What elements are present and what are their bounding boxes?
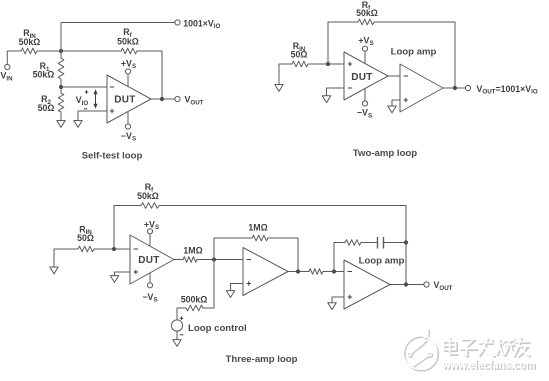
resistor Rf xyxy=(121,48,137,54)
wire R5 to node G and U6 minus input xyxy=(323,271,344,273)
wire +VS to U1 xyxy=(127,74,129,86)
svg-text:50Ω: 50Ω xyxy=(38,103,55,113)
power +VS terminal xyxy=(125,69,130,74)
svg-text:Two-amp loop: Two-amp loop xyxy=(353,148,417,159)
wire U2 minus input to ground xyxy=(327,88,345,96)
wire U3 output xyxy=(443,87,465,89)
wire node E up to R4 xyxy=(214,238,252,260)
terminal 1001xVIO xyxy=(175,20,180,25)
svg-text:1MΩ: 1MΩ xyxy=(183,246,202,256)
power -VS terminal xyxy=(147,283,152,288)
capacitor C1 xyxy=(378,237,384,249)
polarity minus of V1 xyxy=(180,334,184,336)
wire Rf to output node xyxy=(137,51,162,99)
svg-text:50Ω: 50Ω xyxy=(77,233,94,243)
pin minus of U1 xyxy=(110,86,114,88)
wire R2 to ground xyxy=(60,112,62,121)
op-amp U5 xyxy=(243,248,288,296)
wire R4 to node F xyxy=(268,238,298,272)
wire RIN to node C and DUT plus input xyxy=(308,63,344,65)
svg-text:50kΩ: 50kΩ xyxy=(117,37,139,47)
wire RIN to node A xyxy=(37,50,61,52)
wire V1 to ground xyxy=(176,331,178,340)
wire node E down to R7 xyxy=(203,260,214,309)
op-amp U2 DUT xyxy=(344,52,388,100)
node VOUT junction xyxy=(453,86,457,90)
power +VS terminal xyxy=(362,46,367,51)
wire -VS to U4 xyxy=(149,273,151,283)
power -VS terminal xyxy=(125,124,130,129)
ground at U6 plus input xyxy=(328,303,336,310)
source V1 loop control xyxy=(171,320,182,331)
wire R7 to source V1 xyxy=(177,308,186,320)
svg-text:Self-test loop: Self-test loop xyxy=(82,150,143,161)
svg-text:50kΩ: 50kΩ xyxy=(33,70,55,80)
pin minus of U4 xyxy=(134,248,138,250)
node VOUT junction xyxy=(404,282,408,286)
svg-text:500kΩ: 500kΩ xyxy=(181,294,208,304)
resistor R3 1M xyxy=(183,257,197,263)
node G junction xyxy=(332,269,336,273)
svg-text:50kΩ: 50kΩ xyxy=(137,191,159,201)
wire U2 output to loop amp xyxy=(388,75,400,77)
terminal VOUT xyxy=(465,85,470,90)
resistor R5 xyxy=(309,269,323,275)
wire node A to Rf xyxy=(61,50,121,52)
resistor R7 500k xyxy=(186,305,203,311)
polarity plus of VIO xyxy=(85,90,89,94)
op-amp U6 loop amp xyxy=(344,260,390,309)
wire U4 output to R3 xyxy=(174,259,183,261)
wire -VS to U1 xyxy=(127,112,129,124)
op-amp U3 loop amp xyxy=(400,64,443,112)
wire VIO to ground xyxy=(77,111,79,121)
source VIO arrow xyxy=(95,93,97,106)
terminal VIN xyxy=(5,64,10,69)
pin plus of U5 xyxy=(247,281,251,285)
wire +VS to U4 xyxy=(149,234,151,246)
polarity minus of VIO xyxy=(84,108,88,110)
wire node H down to output node xyxy=(405,243,407,285)
resistor Rf xyxy=(358,19,374,25)
ground at U2 minus input xyxy=(322,96,330,103)
pin plus of U3 xyxy=(404,98,408,102)
wire node D up to Rf xyxy=(114,206,141,250)
svg-text:Loop amp: Loop amp xyxy=(359,255,405,266)
wire U4 plus input to ground xyxy=(115,272,131,276)
wire node C up to Rf xyxy=(328,22,358,64)
pin plus of U4 xyxy=(134,270,138,274)
wire ground to RIN xyxy=(54,249,78,267)
svg-text:1MΩ: 1MΩ xyxy=(248,222,267,232)
wire node A down to R1 xyxy=(60,51,62,58)
ground at U3 plus input xyxy=(388,106,396,113)
svg-text:Loop amp: Loop amp xyxy=(391,46,437,57)
svg-text:DUT: DUT xyxy=(351,72,372,83)
power +VS terminal xyxy=(147,229,152,234)
resistor R4 1M xyxy=(252,235,268,241)
wire node G up to R6 xyxy=(334,243,345,272)
ground below R2 xyxy=(57,121,65,128)
wire U3 plus input to ground xyxy=(392,100,400,106)
wire C1 to node H xyxy=(384,242,407,244)
pin minus of U5 xyxy=(247,259,251,261)
resistor R6 xyxy=(345,240,361,246)
wire R3 to node E xyxy=(197,259,243,261)
wire R1 to node B xyxy=(60,79,62,93)
svg-text:DUT: DUT xyxy=(114,95,135,106)
ground at U5 plus input xyxy=(226,291,234,298)
resistor R2 xyxy=(58,93,64,112)
svg-text:50Ω: 50Ω xyxy=(291,50,308,60)
node C junction xyxy=(326,62,330,66)
svg-text:50kΩ: 50kΩ xyxy=(19,37,41,47)
polarity plus of V1 xyxy=(180,316,184,320)
ground at RIN input xyxy=(275,85,283,92)
resistor R1 xyxy=(58,58,64,79)
wire U5 plus input to ground xyxy=(231,284,244,291)
op-amp U1 DUT xyxy=(107,75,151,123)
wire ground to RIN xyxy=(279,64,292,85)
resistor RIN xyxy=(78,246,94,252)
wire +VS to U2 xyxy=(364,51,366,63)
wire -VS to U2 xyxy=(364,89,366,101)
terminal VOUT xyxy=(175,96,180,101)
node D junction xyxy=(112,247,116,251)
ground below V1 xyxy=(173,340,181,347)
wire VIN terminal to RIN xyxy=(7,51,21,64)
power -VS terminal xyxy=(362,101,367,106)
resistor Rf xyxy=(141,203,159,209)
wire U6 plus input to ground xyxy=(332,297,344,303)
node E junction xyxy=(212,257,216,261)
pin plus of U6 xyxy=(348,295,352,299)
pin plus of U2 xyxy=(348,62,352,66)
svg-text:50kΩ: 50kΩ xyxy=(356,8,378,18)
node F junction xyxy=(296,269,300,273)
wire R6 to capacitor C1 xyxy=(361,242,378,244)
pin minus of U3 xyxy=(404,75,408,77)
ground at RIN input xyxy=(50,267,58,274)
wire U6 output xyxy=(390,284,424,286)
wire node B to DUT inverting input xyxy=(61,86,107,88)
node A junction xyxy=(59,49,63,53)
wire Rf to output column xyxy=(159,206,406,243)
svg-text:DUT: DUT xyxy=(138,255,159,266)
pin minus of U6 xyxy=(348,271,352,273)
op-amp U4 DUT xyxy=(130,235,174,284)
node B junction xyxy=(59,85,63,89)
wire VIO source to DUT noninverting input xyxy=(78,110,107,112)
wire Rf to output node xyxy=(374,22,455,88)
svg-text:Three-amp loop: Three-amp loop xyxy=(226,354,298,365)
ground at U4 plus input xyxy=(110,276,118,283)
node H junction xyxy=(404,240,408,244)
wire RIN to node D and DUT minus input xyxy=(94,248,130,250)
terminal VOUT xyxy=(424,282,429,287)
pin plus of U1 xyxy=(110,109,114,113)
ground below VIO xyxy=(74,121,82,128)
pin minus of U2 xyxy=(348,87,352,89)
wire node A up to top terminal xyxy=(61,23,175,52)
resistor RIN xyxy=(292,61,308,67)
wire U1 output xyxy=(151,98,175,100)
node VOUT junction xyxy=(160,97,164,101)
svg-text:Loop control: Loop control xyxy=(188,323,247,334)
resistor RIN xyxy=(21,48,37,54)
wire U5 output to R5 xyxy=(288,271,309,273)
